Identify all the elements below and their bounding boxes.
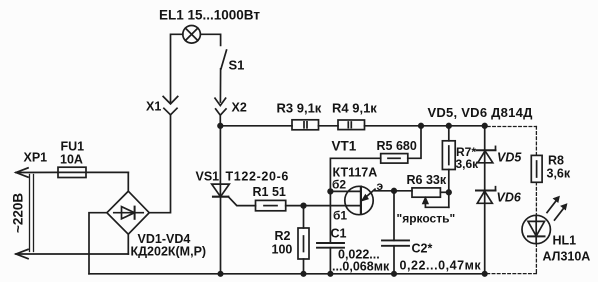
label pin e [377,179,384,193]
fuse FU1 [58,167,128,177]
svg-text:АЛ310А: АЛ310А [543,250,591,264]
svg-text:R1 51: R1 51 [253,185,286,199]
label VD5 VD6 type [428,105,534,120]
svg-text:10А: 10А [60,153,83,167]
label KT117A [333,166,378,180]
zener diode VD5 [477,146,496,162]
wire fuse to bridge top [127,172,129,191]
label T122-20-6 [226,170,290,184]
wire S1 to X2 [219,69,221,102]
wire lamp right to S1 [200,34,220,45]
capacitor C1 [317,243,344,248]
svg-text:Т122-20-6: Т122-20-6 [226,170,290,184]
connector X2 [215,98,226,115]
label R6 value [407,173,447,187]
svg-text:EL1 15...1000Вт: EL1 15...1000Вт [159,8,260,23]
junction dot R6 right [447,190,452,195]
svg-text:~220В: ~220В [11,193,26,233]
unijunction transistor VT1 [345,186,375,214]
svg-text:...0,068мк: ...0,068мк [332,260,390,274]
wire lamp left to X1 [171,34,183,102]
thyristor VS1 anode wire [219,126,221,197]
svg-text:3,6к: 3,6к [547,167,571,181]
label EL1 value [159,8,260,23]
plug XP1 pin1 arrow [16,168,58,177]
label S1 [229,58,245,73]
top bus wire node A to R3 [220,125,292,127]
wire R7 top to bus [448,126,450,141]
svg-text:С1: С1 [331,227,347,241]
resistor R2 [298,228,309,259]
wire R2 to bottom bus [303,259,305,274]
label VS1 [196,170,220,184]
junction dot R2 on bus [301,272,305,276]
label KD202K [131,245,207,259]
node A junction dot [218,124,223,129]
label X2 [232,101,247,115]
capacitor C2 [382,240,409,245]
svg-text:FU1: FU1 [61,140,85,154]
label pin b1 [333,209,347,223]
junction dot base2 node [328,189,333,194]
R6 wiper arrow [422,197,449,208]
label VD1-VD4 [138,232,191,246]
resistor R8 [531,155,542,182]
junction dot C2 on bus [392,272,396,276]
svg-text:б1: б1 [333,209,347,223]
label brightness [397,212,456,226]
bridge rectifier VD1-VD4 diamond [107,191,149,234]
dashed wire R8 to HL1 [535,182,537,215]
svg-text:"яркость": "яркость" [397,212,456,226]
resistor R4 [338,120,365,130]
svg-text:VT1: VT1 [332,139,357,154]
top bus wire R4 to zener branch [365,125,485,127]
wire R6 right to R7 [440,191,448,193]
wire bridge left vertex to bottom bus [89,213,107,274]
bottom bus wire [89,273,485,275]
wire R5 right to top bus [408,126,421,159]
label HL1 [553,234,577,248]
mains cord twin lines [30,175,34,252]
label R8 value [547,167,571,181]
wire C2 to bottom bus [393,246,395,274]
wire R3 to R4 [319,125,339,127]
plug XP1 pin2 arrow [16,249,128,258]
junction dot C1 on bus [328,272,332,276]
junction dot zener branch bottom [483,272,487,276]
label C1 [331,227,347,241]
svg-text:VD5, VD6 Д814Д: VD5, VD6 Д814Д [428,105,534,120]
svg-text:100: 100 [272,243,293,257]
thyristor cathode wire to bottom bus [220,197,222,274]
wire zener branch [484,126,486,274]
label FU1 [61,140,85,154]
svg-text:X1: X1 [146,100,161,114]
svg-text:КД202К(М,Р): КД202К(М,Р) [131,245,207,259]
resistor R3 [292,120,319,130]
svg-text:HL1: HL1 [553,234,577,248]
svg-text:S1: S1 [229,58,245,73]
wire X1 stem to bridge [149,115,170,213]
label R2 value [272,243,293,257]
wire gate node down to R2 [303,206,305,228]
junction dot R5 top bus [419,124,424,129]
label VT1 [332,139,357,154]
junction dot VS1 cathode on bus [218,272,222,276]
label R7 [456,145,476,159]
label R2 [275,229,291,243]
label C1 value line1 [338,248,380,262]
label FU1 value 10A [60,153,83,167]
svg-text:R5 680: R5 680 [377,139,417,153]
label R7 value [456,157,480,171]
label C2 value [400,258,482,272]
lamp EL1 [183,26,201,44]
LED HL1 [522,215,550,243]
resistor R1 [256,200,286,210]
wire X2 stem to node A [219,115,221,126]
svg-text:R6 33к: R6 33к [407,173,447,187]
base2 wire to VT1 [330,190,361,192]
label ~220V rotated [11,193,26,233]
switch S1 [221,50,227,69]
label C2 [412,242,433,256]
dashed wire HL1 to bottom bus [487,244,536,274]
label HL1 type [543,250,591,264]
wire bridge bottom to XP1 pin2 [127,234,129,254]
zener diode VD6 [476,187,496,204]
wire R5 left down to C1 [330,158,380,243]
HL1 emission arrows [547,196,567,220]
junction dot C2 branch on emitter wire [392,189,397,194]
svg-text:R3 9,1к: R3 9,1к [277,101,322,116]
wire R1 to gate node [286,205,304,207]
svg-text:R2: R2 [275,229,291,243]
thyristor gate wire [228,197,255,206]
svg-text:С2*: С2* [412,242,433,256]
resistor R5 [381,154,408,164]
label VD6 [497,191,522,205]
emitter wire to R6 [375,190,412,192]
label X1 [146,100,161,114]
svg-text:VD5: VD5 [497,151,522,165]
base1 wire to VT1 [304,205,361,207]
connector X1 [163,97,178,115]
svg-text:R8: R8 [548,154,564,168]
label R8 [548,154,564,168]
svg-text:0,22...0,47мк: 0,22...0,47мк [400,258,482,272]
label R5 value [377,139,417,153]
label pin b2 [332,178,346,192]
junction dot R7 top bus [447,124,452,129]
svg-text:X2: X2 [232,101,247,115]
label VD5 [497,151,522,165]
label R3 value [277,101,322,116]
svg-text:3,6к: 3,6к [456,157,480,171]
junction dot zener branch top [482,124,487,129]
svg-text:R4 9,1к: R4 9,1к [332,101,377,116]
thyristor VS1 [212,184,230,197]
potentiometer R6 [412,188,440,197]
junction dot gate node [301,203,306,208]
label XP1 [24,151,48,165]
svg-text:VD6: VD6 [497,191,522,205]
wire C1 to bottom bus [329,248,331,274]
svg-text:VS1: VS1 [196,170,220,184]
label R1 value [253,185,286,199]
wire R7 bottom to R6 node [448,170,450,208]
label C1 value line2 [332,260,390,274]
svg-text:ХР1: ХР1 [24,151,48,165]
wire emitter node down to C2 [393,191,395,241]
svg-text:б2: б2 [332,178,346,192]
resistor R7 [442,141,455,170]
label R4 value [332,101,377,116]
bridge internal diode [114,207,143,219]
dashed wire top bus to R8 [488,127,537,156]
